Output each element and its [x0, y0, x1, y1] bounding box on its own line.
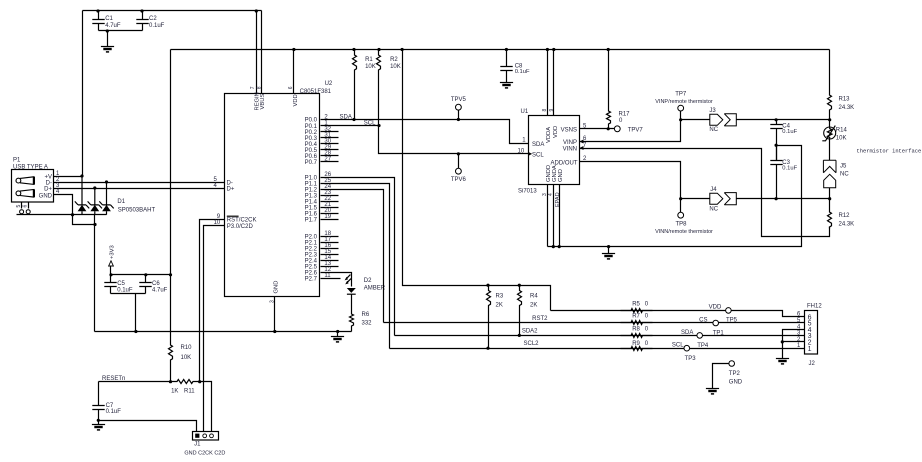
svg-text:TP2: TP2 — [729, 371, 741, 377]
wire VDD bus line — [551, 311, 805, 317]
svg-text:NC: NC — [709, 127, 718, 133]
wire U1 ground rail — [548, 146, 802, 247]
svg-text:C5: C5 — [117, 281, 125, 287]
svg-text:0.1uF: 0.1uF — [117, 288, 133, 294]
wire SDA2 bus line — [395, 335, 805, 337]
svg-text:27: 27 — [324, 157, 331, 163]
svg-text:11: 11 — [324, 273, 331, 279]
svg-text:332: 332 — [362, 321, 373, 327]
wire shield/anode rail — [17, 214, 107, 216]
capacitor C5 — [104, 275, 116, 294]
svg-text:NC: NC — [709, 207, 718, 213]
junction R3/SCL2 — [486, 347, 489, 350]
resistor R2 10K — [377, 50, 381, 126]
test point TP7 — [678, 105, 684, 111]
wire gnd stem — [337, 332, 339, 337]
junction TPV5 — [457, 118, 460, 121]
junction C4/C3/gnd — [775, 144, 778, 147]
svg-text:FH12: FH12 — [807, 304, 822, 310]
resistor R12 24.3K — [828, 199, 832, 229]
svg-text:GND: GND — [729, 380, 743, 386]
svg-text:6: 6 — [288, 86, 294, 89]
svg-text:19: 19 — [324, 214, 331, 220]
svg-text:VINP: VINP — [563, 140, 577, 146]
wire shield pin 6 — [28, 203, 30, 209]
test point TP2 — [729, 361, 735, 367]
junction C6 — [144, 273, 147, 276]
svg-text:J3: J3 — [709, 108, 716, 114]
svg-text:thermistor interface: thermistor interface — [857, 149, 922, 155]
wire caps to ground rail — [135, 294, 137, 332]
wire J5 to node — [829, 188, 831, 199]
junction REGIN — [255, 9, 258, 12]
wire stub P1.5 — [321, 207, 339, 209]
wire C1-C2 bottom — [99, 30, 143, 32]
wire stub P1.4 — [321, 201, 339, 203]
junction gnd stem — [106, 29, 109, 32]
connector J5 plug — [824, 174, 836, 188]
diode D1 element 2 — [94, 188, 96, 205]
wire GNDA pin — [553, 185, 555, 247]
wire stub P0.7 — [321, 161, 339, 163]
ground rail symbol — [331, 336, 344, 338]
wire R14 to J5 — [829, 139, 831, 161]
junction gnd U1 — [607, 245, 610, 248]
capacitor C6 — [139, 275, 151, 294]
connector J3 plug — [710, 114, 723, 125]
svg-text:SCL: SCL — [364, 121, 376, 127]
ground C8 — [500, 82, 513, 84]
junction D+/D1 — [93, 186, 96, 189]
wire VDD pin 6 — [293, 50, 295, 94]
ground J2 — [776, 358, 789, 360]
connector J4 plug — [710, 193, 723, 204]
wire stub P0.4 — [321, 143, 339, 145]
resistor R13 24.3K — [828, 50, 832, 120]
wire VDD rail — [171, 49, 830, 51]
junction C8 top — [505, 48, 508, 51]
test point TPV5 — [456, 104, 462, 110]
connector P1 USB TYPE A body — [12, 170, 54, 203]
junction VDD pin — [292, 48, 295, 51]
wire gnd vertical to ground rail — [94, 215, 96, 332]
junction C3 bottom — [775, 197, 778, 200]
wire stub P0.2 — [321, 131, 339, 133]
test point TP1 — [697, 333, 703, 339]
resistor R1 10K — [353, 50, 357, 120]
svg-text:R9: R9 — [632, 341, 640, 347]
svg-text:R14: R14 — [836, 128, 848, 134]
svg-text:R2: R2 — [390, 57, 398, 63]
wire stub P2.0 — [321, 236, 339, 238]
wire J4 line ADD/OUT node — [681, 198, 710, 200]
svg-text:CS: CS — [699, 318, 707, 324]
svg-text:8: 8 — [542, 109, 548, 112]
wire VBUS top rail — [83, 10, 262, 12]
wire SCL2 bus line — [390, 348, 805, 350]
svg-text:J1: J1 — [194, 442, 201, 448]
svg-text:P0.7: P0.7 — [305, 160, 318, 166]
wire C5-C6 bottom — [111, 293, 146, 295]
wire TP8 stem — [680, 199, 682, 213]
svg-text:10: 10 — [518, 148, 525, 154]
wire J2 pin4 gnd — [783, 330, 805, 359]
resistor R7 0 — [621, 321, 653, 325]
wire GND pin 4 P1 — [54, 195, 95, 225]
capacitor C1 — [92, 11, 104, 31]
wire gnd stem U1 — [608, 247, 610, 254]
svg-text:R5: R5 — [632, 302, 640, 308]
wire VSNS net — [580, 128, 615, 130]
svg-text:J2: J2 — [809, 361, 816, 367]
wire P1.1 to SCL2 — [321, 184, 390, 349]
svg-text:VDDA: VDDA — [546, 127, 552, 143]
shield pad circles — [20, 210, 24, 214]
svg-text:Si7013: Si7013 — [518, 188, 537, 194]
wire R13 to R14 — [829, 120, 831, 128]
svg-text:VINN: VINN — [563, 147, 577, 153]
wire stub P2.7 — [321, 278, 341, 280]
svg-text:VSNS: VSNS — [561, 127, 577, 133]
junction VDDA — [546, 48, 549, 51]
wire P1.2 to RST2 — [321, 190, 384, 323]
resistor R8 0 — [621, 334, 653, 338]
resistor R6 332 — [350, 295, 354, 332]
wire SCL net P0.1 — [321, 125, 379, 127]
svg-text:0.1uF: 0.1uF — [106, 409, 122, 415]
svg-text:D+: D+ — [227, 187, 235, 193]
svg-text:GND: GND — [39, 193, 53, 199]
junction GND U1 — [558, 245, 561, 248]
svg-text:SCL2: SCL2 — [523, 341, 539, 347]
junction GND/shield — [71, 213, 74, 216]
junction C2 top — [140, 9, 143, 12]
svg-text:R1: R1 — [365, 57, 373, 63]
svg-text:SP0503BAHT: SP0503BAHT — [118, 207, 156, 213]
arrow VINN — [580, 146, 584, 150]
wire J3 line VINP node — [681, 119, 710, 121]
wire ground rail — [95, 331, 352, 333]
capacitor C3 — [770, 146, 782, 199]
wire +V pin 1 — [54, 176, 83, 178]
USB slot upper — [16, 178, 21, 183]
wire ADD/OUT net — [580, 162, 681, 199]
wire J2 pin2 gnd — [783, 341, 805, 343]
wire GND pin U1 — [559, 185, 561, 247]
svg-text:TP7: TP7 — [675, 91, 687, 97]
svg-text:4: 4 — [548, 193, 554, 196]
ground — [101, 46, 114, 48]
junction +3V3/C5 — [109, 273, 112, 276]
wire C7 to ground — [98, 421, 100, 425]
junction TP7/VINP — [679, 118, 682, 121]
wire U1 VDDA pin 8 — [547, 50, 549, 116]
svg-text:SDA: SDA — [681, 330, 693, 336]
test point TPV6 — [456, 168, 462, 174]
wire GNDD pin — [547, 185, 549, 247]
wire VDD rail down to +3V3 rail — [170, 50, 172, 275]
svg-text:TP3: TP3 — [685, 356, 697, 362]
resistor R3 2K — [487, 286, 491, 349]
wire stub P1.7 — [321, 219, 339, 221]
connector J3 receptacle — [724, 114, 736, 126]
wire +3V3 rail — [111, 274, 171, 276]
junction D-/D1 — [105, 180, 108, 183]
junction RST/R11 — [198, 380, 201, 383]
wire RST/C2CK pin 9 — [200, 220, 225, 382]
svg-text:SCL: SCL — [672, 343, 684, 349]
junction caps gnd — [134, 330, 137, 333]
LED arrows — [347, 275, 351, 279]
wire C4-C3 — [776, 146, 778, 161]
wire VINP net — [580, 111, 681, 142]
svg-text:24.3K: 24.3K — [839, 105, 855, 111]
svg-text:9: 9 — [549, 109, 555, 112]
svg-text:R7: R7 — [632, 314, 640, 320]
test point TP8 — [678, 212, 684, 218]
wire TP2 to ground — [713, 364, 729, 389]
svg-text:R3: R3 — [496, 294, 504, 300]
op-amp U1 Si7013 body — [529, 116, 580, 185]
svg-text:R13: R13 — [839, 96, 851, 102]
wire stub P1.3 — [321, 195, 339, 197]
svg-text:VDD: VDD — [293, 94, 299, 106]
svg-text:P2.7: P2.7 — [305, 277, 318, 283]
wire J4 to R12 node — [737, 198, 830, 200]
junction TPV6 — [457, 152, 460, 155]
junction J2 gnd — [781, 340, 784, 343]
svg-text:SDA2: SDA2 — [522, 328, 538, 334]
diode D1 element 3 — [106, 182, 108, 205]
wire J3 to R13 node — [737, 119, 830, 121]
junction R17 top — [607, 48, 610, 51]
svg-text:R6: R6 — [362, 312, 370, 318]
wire RESETn tail to J1 — [200, 382, 212, 432]
test point TP5 — [713, 320, 719, 326]
connector J1 body — [193, 432, 219, 441]
thermistor R14 10K — [824, 127, 836, 139]
svg-text:USB TYPE A: USB TYPE A — [13, 164, 48, 170]
junction VDD U1 — [552, 48, 555, 51]
wire stub P2.4 — [321, 260, 339, 262]
svg-text:EPAD: EPAD — [555, 192, 561, 207]
svg-text:R17: R17 — [619, 111, 631, 117]
svg-text:TP8: TP8 — [675, 222, 687, 228]
junction R4 top — [518, 284, 521, 287]
wire VBUS pin 8 — [261, 11, 263, 94]
resistor R4 2K — [518, 286, 522, 336]
resistor R10 10K — [169, 275, 173, 382]
svg-text:VDD: VDD — [709, 304, 722, 310]
wire VINN net — [580, 149, 830, 237]
junction GNDA — [552, 245, 555, 248]
junction SCL/R2 — [377, 124, 380, 127]
junction R17/VSNS — [607, 127, 610, 130]
wire to ground — [107, 31, 109, 47]
junction R2 top — [377, 48, 380, 51]
svg-text:P3.0/C2D: P3.0/C2D — [227, 224, 254, 230]
svg-text:GND: GND — [558, 169, 564, 182]
svg-text:U2: U2 — [325, 81, 333, 87]
wire stub P0.3 — [321, 137, 339, 139]
op-amp U2 C8051F381 body — [225, 94, 320, 297]
connector J4 receptacle — [724, 193, 736, 205]
svg-text:R11: R11 — [184, 389, 195, 395]
resistor R9 0 — [621, 347, 653, 351]
wire P2.6 to LED — [321, 273, 352, 287]
svg-text:5: 5 — [16, 205, 22, 208]
wire D- pin 2 — [54, 182, 107, 184]
svg-text:R12: R12 — [839, 213, 851, 219]
wire stub P2.3 — [321, 254, 339, 256]
svg-text:VDD: VDD — [553, 126, 559, 138]
svg-text:VINP/remote thermistor: VINP/remote thermistor — [655, 99, 713, 105]
junction MCU GND — [273, 330, 276, 333]
svg-text:SDA: SDA — [532, 142, 544, 148]
wire RESETn rail — [99, 381, 177, 383]
capacitor C2 — [136, 11, 148, 31]
test point TPV7 — [614, 126, 620, 132]
svg-text:10K: 10K — [181, 355, 192, 361]
svg-text:J4: J4 — [710, 187, 717, 193]
svg-text:RST/C2CK: RST/C2CK — [227, 218, 257, 224]
svg-text:C8051F381: C8051F381 — [300, 89, 332, 95]
svg-text:3: 3 — [270, 300, 276, 303]
wire U1 VDD pin 9 — [553, 50, 555, 116]
svg-text:0.1uF: 0.1uF — [149, 23, 165, 29]
svg-text:C1: C1 — [105, 16, 113, 22]
resistor R5 0 — [621, 309, 653, 313]
connector J2 FH12 body — [805, 311, 818, 355]
svg-text:D+: D+ — [44, 186, 52, 192]
wire stub P2.5 — [321, 266, 339, 268]
svg-text:RST2: RST2 — [532, 316, 548, 322]
wire SCL vertical + to U1 — [379, 126, 529, 154]
junction +3V3/VDD — [169, 273, 172, 276]
overline RST — [227, 215, 239, 217]
svg-text:6: 6 — [23, 205, 29, 208]
wire TPV6 stem — [458, 154, 460, 169]
ground TP2 — [706, 388, 719, 390]
svg-text:R10: R10 — [181, 345, 193, 351]
junction R1 top — [352, 48, 355, 51]
junction R3 top — [486, 284, 489, 287]
arrow SCL — [528, 152, 532, 156]
diode D1 element 1 — [81, 176, 83, 205]
capacitor C4 — [770, 120, 782, 146]
USB slot lower — [16, 191, 21, 196]
svg-text:D1: D1 — [117, 199, 125, 205]
svg-text:24.3K: 24.3K — [839, 221, 855, 227]
svg-text:4.7uF: 4.7uF — [105, 23, 121, 29]
test point TP4 — [684, 345, 690, 351]
arrow VINP — [580, 140, 584, 144]
svg-text:VBUS: VBUS — [260, 94, 266, 110]
junction C1 top — [96, 9, 99, 12]
svg-text:D2: D2 — [364, 278, 372, 284]
svg-text:0.1uF: 0.1uF — [782, 165, 797, 171]
capacitor C8 — [500, 50, 512, 83]
wire stub P1.6 — [321, 213, 339, 215]
wire P3.0/C2D pin 10 — [204, 226, 225, 432]
wire VDD branch vertical — [403, 50, 551, 311]
svg-text:TPV6: TPV6 — [451, 177, 467, 183]
wire D- net — [107, 182, 225, 184]
svg-text:GND: GND — [273, 281, 279, 294]
wire stub P0.5 — [321, 149, 339, 151]
junction VDD branch — [401, 48, 404, 51]
junction TP8 — [679, 197, 682, 200]
svg-text:U1: U1 — [521, 109, 529, 115]
svg-text:GND C2CK C2D: GND C2CK C2D — [184, 451, 225, 457]
svg-text:0.1uF: 0.1uF — [515, 69, 530, 75]
svg-text:+3V3: +3V3 — [110, 245, 116, 259]
wire +3V3 stem — [110, 267, 112, 275]
svg-text:0.1uF: 0.1uF — [782, 129, 797, 135]
wire D+ pin 3 — [54, 188, 95, 190]
ground U1 — [602, 253, 615, 255]
connector J5 receptacle — [823, 160, 836, 173]
test point VDD — [726, 308, 732, 314]
svg-text:TP5: TP5 — [726, 317, 738, 323]
svg-text:10K: 10K — [390, 64, 401, 70]
wire VBUS rail down to USB +V — [82, 11, 84, 177]
svg-text:R4: R4 — [530, 294, 538, 300]
svg-text:TPV7: TPV7 — [628, 127, 644, 133]
svg-text:SDA: SDA — [340, 114, 352, 120]
svg-text:SCL: SCL — [532, 152, 544, 158]
diode D2 AMBER LED — [347, 288, 356, 293]
wire SDA net P0.0 — [321, 120, 529, 144]
svg-text:10K: 10K — [365, 64, 376, 70]
svg-text:7: 7 — [250, 86, 256, 89]
wire D+ net — [95, 188, 225, 190]
resistor R17 0 — [607, 50, 611, 129]
junction +V/D1 — [80, 174, 83, 177]
wire stub P0.6 — [321, 155, 339, 157]
svg-text:J5: J5 — [840, 163, 847, 169]
power +3V3 symbol — [109, 261, 114, 266]
wire P1.0 to SDA2 — [321, 178, 395, 336]
svg-text:TPV5: TPV5 — [451, 97, 467, 103]
svg-text:2K: 2K — [496, 303, 503, 309]
wire RST2/CS bus line — [384, 322, 805, 324]
wire TPV5 stem — [458, 111, 460, 120]
junction J5/R12 — [828, 197, 831, 200]
svg-text:C2: C2 — [149, 16, 157, 22]
capacitor C7 — [92, 382, 104, 421]
svg-text:NC: NC — [840, 171, 849, 177]
svg-text:2K: 2K — [530, 303, 537, 309]
wire REGIN pin 7 — [256, 11, 258, 94]
svg-text:4.7uF: 4.7uF — [152, 288, 168, 294]
junction R13/R14 — [828, 118, 831, 121]
svg-text:R8: R8 — [632, 326, 640, 332]
svg-text:10K: 10K — [836, 136, 847, 142]
svg-text:8: 8 — [257, 86, 263, 89]
svg-text:10: 10 — [214, 220, 221, 226]
wire shield pin 5 — [21, 203, 23, 209]
junction GND elbow — [93, 223, 96, 226]
svg-text:P1.7: P1.7 — [305, 218, 318, 224]
junction C4 top — [775, 118, 778, 121]
junction R10/RESETn — [169, 380, 172, 383]
wire stub P2.2 — [321, 248, 339, 250]
svg-text:1K: 1K — [171, 389, 178, 395]
svg-text:1: 1 — [808, 346, 812, 353]
svg-text:VINN/remote thermistor: VINN/remote thermistor — [655, 229, 713, 235]
svg-text:P1: P1 — [13, 158, 21, 164]
